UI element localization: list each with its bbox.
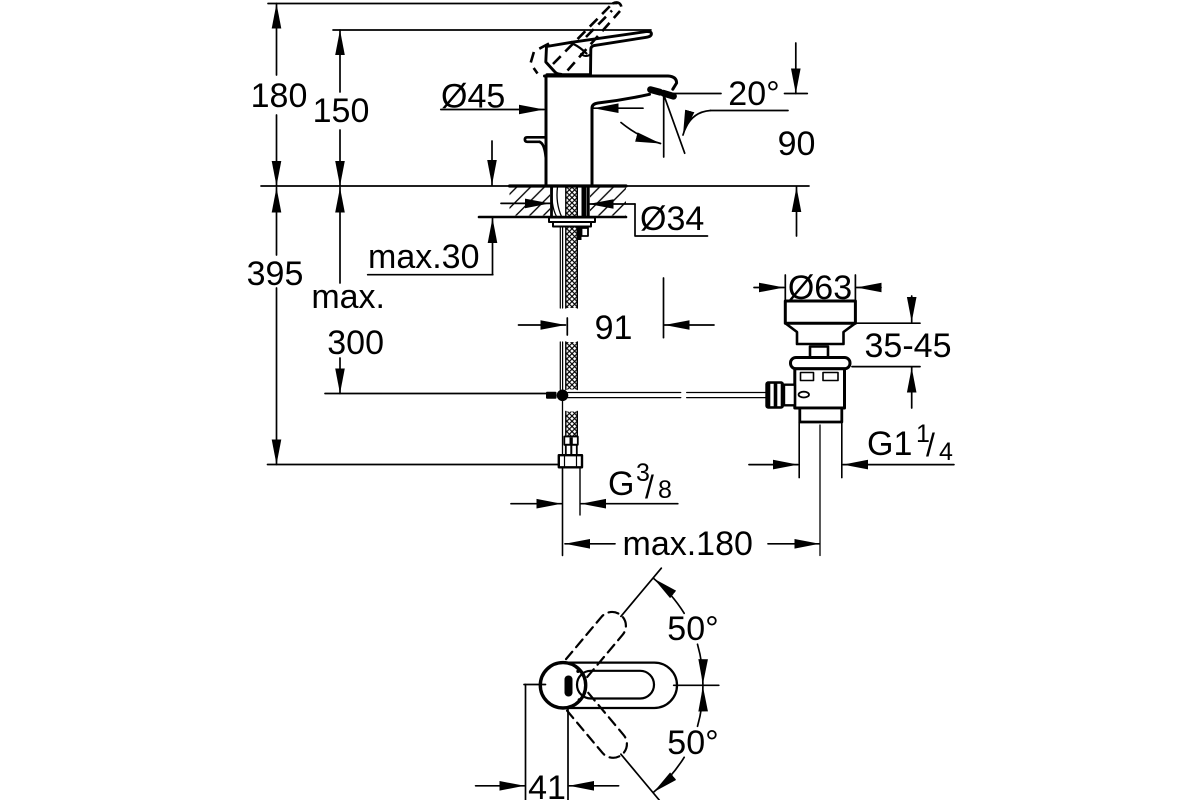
slot mark <box>565 676 573 697</box>
dashed handle rotated up <box>566 606 632 677</box>
handle knuckle solid <box>546 42 572 74</box>
pull-rod knob on body <box>525 137 546 142</box>
dimension max.300 <box>325 188 547 394</box>
pull rod upper <box>559 227 561 309</box>
tailpipe <box>798 422 800 478</box>
dimension 41 <box>476 685 619 800</box>
svg-text:4: 4 <box>939 438 953 466</box>
dimension 180 <box>276 4 278 187</box>
G3/8 ferrule <box>564 437 578 445</box>
svg-text:Ø45: Ø45 <box>441 78 505 116</box>
under-slab washer <box>549 218 595 223</box>
corner dots <box>576 670 579 673</box>
svg-text:50°: 50° <box>667 610 718 648</box>
svg-text:G: G <box>608 465 634 503</box>
svg-text:max.: max. <box>311 278 385 316</box>
handle raised dashed <box>531 2 622 73</box>
faucet spout underside + body right edge <box>592 94 650 186</box>
dimension 35-45 <box>852 296 920 408</box>
waste body <box>795 369 845 408</box>
drain centerline <box>819 425 821 556</box>
20deg arc arrow left <box>621 123 661 144</box>
svg-text:90: 90 <box>778 125 816 163</box>
dashed handle rotated down <box>567 693 633 764</box>
clevis pin <box>799 392 809 398</box>
lever top surface <box>577 671 654 699</box>
dimension 395 <box>268 188 559 465</box>
under-slab stud nut <box>577 227 582 241</box>
svg-text:max.180: max.180 <box>623 525 753 563</box>
dimension G1 1/4 <box>749 464 954 466</box>
drain flange <box>785 301 855 323</box>
faucet body left edge <box>545 76 548 186</box>
mounting stud in hole <box>582 186 587 217</box>
svg-text:395: 395 <box>247 255 304 293</box>
overflow slots <box>801 373 814 381</box>
svg-text:300: 300 <box>327 324 384 362</box>
svg-text:91: 91 <box>595 309 633 347</box>
hole left edge <box>550 186 553 217</box>
tick left <box>524 684 546 686</box>
handle base line <box>547 73 590 76</box>
svg-text:35-45: 35-45 <box>865 327 952 365</box>
50deg ray upper <box>621 568 661 616</box>
extension line top (180 ref) <box>268 3 617 5</box>
svg-text:150: 150 <box>313 92 370 130</box>
flex hose upper segment <box>566 186 578 308</box>
50deg arc upper <box>654 579 703 685</box>
flex hose lower segment <box>566 412 578 437</box>
collar <box>784 385 795 406</box>
dimension G3/8 <box>511 503 678 505</box>
pop-up rod horizontal <box>568 393 765 398</box>
svg-text:G1: G1 <box>867 425 912 463</box>
hose curves in hole <box>552 187 557 217</box>
dimension 91 <box>519 278 715 338</box>
G3/8 pipe <box>562 467 564 555</box>
aerator <box>651 90 661 93</box>
ball joint <box>557 390 569 402</box>
svg-text:/: / <box>645 469 654 505</box>
centerline right <box>674 684 719 686</box>
dimension 150 <box>339 30 341 186</box>
centerline below ball <box>562 401 564 556</box>
thread section <box>800 408 842 422</box>
50deg ray lower <box>621 754 659 800</box>
svg-text:180: 180 <box>251 77 308 115</box>
handle lever solid <box>572 32 652 75</box>
dimension d63 <box>754 275 881 301</box>
svg-text:50°: 50° <box>667 724 718 762</box>
dimension max.180 <box>565 543 820 545</box>
20deg stream line <box>664 95 685 154</box>
drain cone <box>785 323 855 344</box>
svg-text:20°: 20° <box>728 75 779 113</box>
handle outline top view <box>563 663 677 708</box>
50deg arc lower <box>654 686 703 792</box>
flex hose middle segment <box>566 342 578 390</box>
svg-text:Ø34: Ø34 <box>640 200 704 238</box>
svg-text:8: 8 <box>658 476 672 504</box>
dimension d34 <box>501 203 708 236</box>
svg-text:max.30: max.30 <box>368 238 480 276</box>
aerator centerline extension <box>663 95 665 157</box>
rod end cap <box>546 392 557 399</box>
G3/8 nut <box>559 455 582 467</box>
dimension 90 <box>795 43 798 236</box>
dimension max.30 <box>368 141 493 275</box>
extension line (150 ref) <box>333 29 651 31</box>
countertop long line <box>261 185 809 187</box>
dimension d45 <box>441 108 643 109</box>
countertop slab <box>510 188 551 216</box>
hole right edge <box>587 186 590 217</box>
knurled knob <box>765 381 784 408</box>
pull rod middle <box>559 342 561 390</box>
svg-text:41: 41 <box>528 769 566 800</box>
pivot knob <box>810 347 828 358</box>
dimension 20 deg <box>662 94 807 136</box>
handle scoop curves <box>574 44 587 54</box>
knuckle circle top view <box>540 663 585 708</box>
G3/8 tail <box>566 445 577 455</box>
seal washer <box>791 358 851 369</box>
faucet body top + spout top <box>545 76 677 89</box>
svg-text:/: / <box>926 427 935 463</box>
